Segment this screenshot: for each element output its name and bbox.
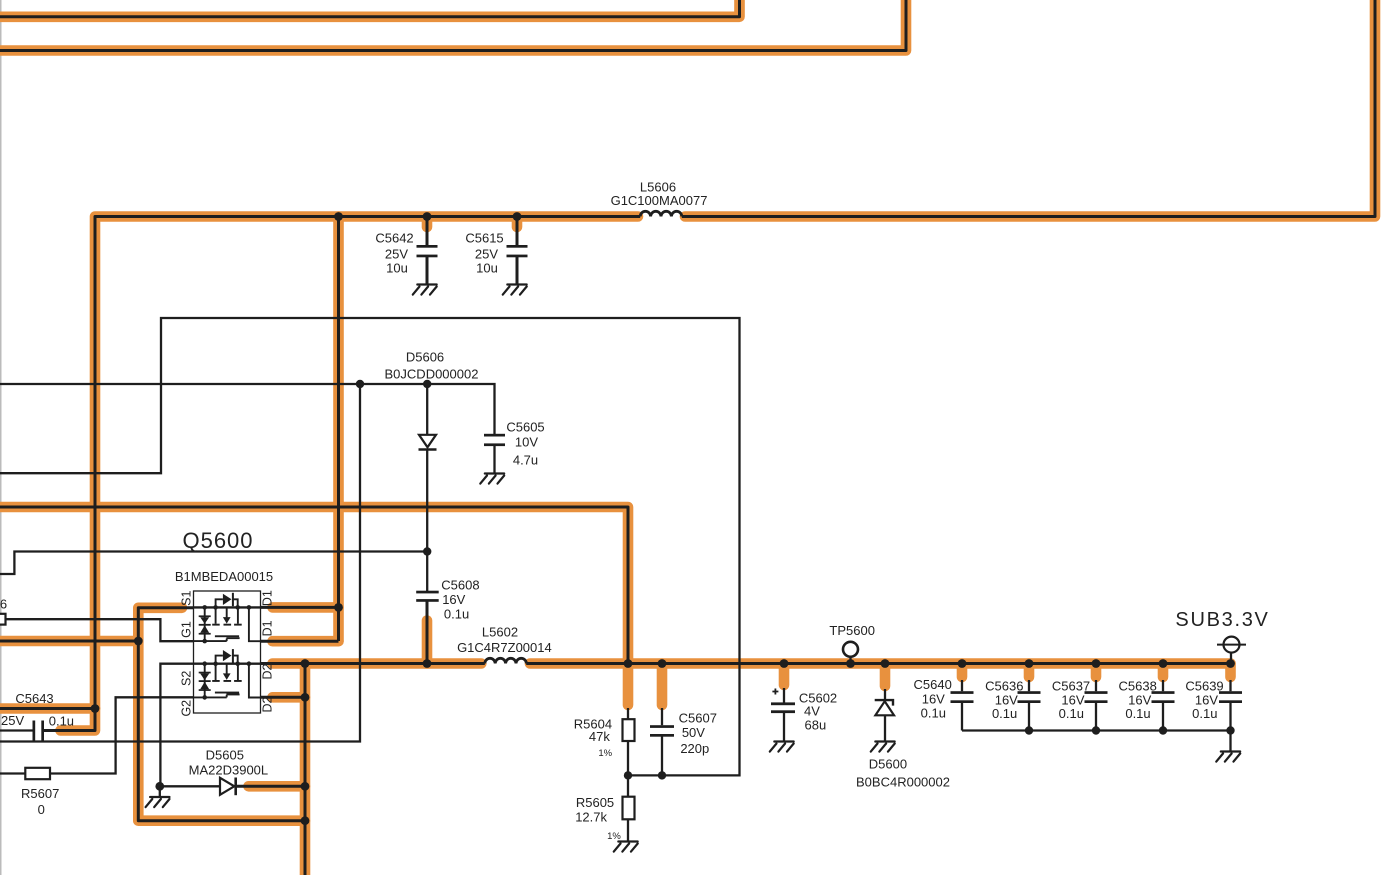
svg-text:D1: D1 [261,620,275,636]
svg-text:S1: S1 [179,591,193,606]
svg-text:10u: 10u [386,260,408,275]
wire D5605 cathode stub highlight [249,781,306,792]
capacitor C5636 [1018,691,1041,703]
resistor R5607 [25,768,50,779]
svg-text:16V: 16V [442,592,465,607]
svg-text:TP5600: TP5600 [829,623,875,638]
resistor R5604 [623,719,635,741]
node rail C5638 [1159,659,1168,668]
resistor stub left edge (cut component) [0,614,6,625]
svg-text:68u: 68u [805,718,827,733]
wire top-B [0,0,906,51]
node y384 x360 [356,380,364,388]
wire y384 net [0,384,495,435]
node rail C5637 [1092,659,1101,668]
capacitor C5615 [507,245,528,257]
wire C5636 stub highlight [1024,664,1035,678]
svg-text:25V: 25V [385,246,408,261]
wire R5607 left lead [0,772,25,774]
node fb R5604 R5605 [624,771,632,779]
wire D2 bottom stub highlight [273,692,306,703]
ground below C5642 [413,285,437,295]
svg-text:C5607: C5607 [679,710,717,725]
wire right-vertical to main horizontal highlight [685,0,1375,217]
wire y507 highlight [0,507,628,664]
svg-text:R5605: R5605 [576,795,614,810]
wire D5600 leads [884,689,886,742]
node C5615 tap [513,212,522,221]
wire D5606 top lead [426,384,428,434]
svg-text:0.1u: 0.1u [444,607,469,622]
svg-text:D2: D2 [261,696,275,712]
svg-text:4V: 4V [804,704,820,719]
THIN_NET_LAYER [0,318,1231,842]
svg-text:SUB3.3V: SUB3.3V [1175,609,1269,631]
wire main rail right of L5602 highlight [530,658,1231,669]
wire C5608 stub highlight [422,621,433,664]
wire G1 route [5,619,194,641]
svg-text:C5642: C5642 [375,230,413,245]
wire C5638 leads [1162,680,1164,731]
wire main rail left of L5602 [261,662,485,665]
svg-text:25V: 25V [1,713,24,728]
node rail C5636 [1025,659,1034,668]
wire C5640 leads [961,680,963,731]
wire left y641 highlight [0,636,138,647]
wire D5606 bottom lead to C5608 [426,450,428,592]
node D2 bottom pin [301,693,310,702]
svg-text:B0JCDD000002: B0JCDD000002 [385,366,479,381]
wire C5608 bottom lead [426,601,429,664]
wire C5637 stub highlight [1091,664,1102,678]
svg-text:C5615: C5615 [465,230,503,245]
svg-text:1%: 1% [607,831,621,842]
node cap rail C5636 [1025,726,1033,734]
wire D1 bottom stub highlight [273,636,339,647]
node rail C5602 [780,659,789,668]
svg-text:10u: 10u [476,260,498,275]
node C5643 corner [91,704,100,713]
wire D2 bottom stub [261,696,306,699]
node D5606 anode [423,380,431,388]
node x305 y821 [301,816,310,825]
wire vertical x338 [337,217,340,642]
wire D2 vertical [304,664,307,875]
wire S1 route [138,608,305,821]
svg-text:0: 0 [38,802,45,817]
wire C5643 right lead [43,709,96,731]
svg-text:220p: 220p [680,741,709,756]
wire D5605 cathode [236,785,305,788]
ground below D5600 [871,742,895,752]
wire C5605 bottom lead [493,446,495,474]
capacitor C5643 [33,721,45,741]
svg-text:Q5600: Q5600 [182,528,253,553]
wire left y708 [0,707,95,710]
node rail D5600 [881,659,890,668]
svg-text:0.1u: 0.1u [49,714,74,729]
wire D1 bottom stub [261,640,339,643]
capacitor C5638 [1152,691,1175,703]
ground below C5615 [503,285,527,295]
test point TP5600 [843,642,858,657]
svg-text:D2: D2 [261,663,275,679]
wire C5615 leads [516,217,519,285]
svg-text:0.1u: 0.1u [1059,706,1084,721]
svg-text:1%: 1% [598,748,612,759]
svg-text:16V: 16V [922,691,945,706]
wire C5638 stub highlight [1158,664,1169,678]
svg-text:D5605: D5605 [206,747,244,762]
svg-text:G1: G1 [179,621,193,638]
wire bottom cap rail [962,729,1231,731]
node cap rail C5637 [1092,726,1100,734]
node D5605 cathode [301,782,310,791]
left scan border [0,0,2,875]
diode D5605 [220,778,236,796]
svg-text:10V: 10V [515,434,538,449]
svg-text:L5602: L5602 [482,624,518,639]
wire top-A highlight [0,0,740,17]
wire TP5600 stub [849,657,851,664]
wire D5600 stub highlight [880,664,891,687]
svg-text:6: 6 [0,597,7,612]
wire R5604 stub highlight [623,664,634,706]
ground below C5602 [770,742,794,752]
wire C5607 leads [661,708,663,775]
wire feedback box [0,318,740,775]
wire D2 vertical highlight [300,664,311,875]
svg-text:47k: 47k [589,729,610,744]
wire C5640 stub highlight [957,664,968,678]
wire S2 route [160,664,193,787]
svg-text:0.1u: 0.1u [992,706,1017,721]
ground below C5639 [1216,752,1240,762]
wire R5604 to R5605 [627,708,629,842]
ground below C5605 [480,474,504,484]
inductor L5606 [640,211,682,216]
terminal SUB3.3V [1217,637,1246,653]
wire D5605 anode lead [160,786,220,797]
ground below D5605 [146,797,170,807]
svg-text:B1MBEDA00015: B1MBEDA00015 [175,569,273,584]
wire C5615 stub highlight [512,217,523,227]
zener D5600 [875,700,895,715]
svg-text:0.1u: 0.1u [1192,706,1217,721]
wire SUB3.3V stub [1230,653,1232,664]
node D1 pin [334,603,343,612]
capacitor C5607 [650,725,674,737]
svg-text:12.7k: 12.7k [575,810,607,825]
capacitor C5642 [417,245,438,257]
wire C5639 stub highlight [1225,664,1236,678]
wire S1 stub highlight [138,608,305,821]
node rail D2 [301,659,310,668]
capacitor C5608 [416,591,439,602]
wire C5602 stub highlight [779,664,790,686]
wire y507 [0,507,628,664]
wire G2 route [50,697,193,773]
node rail TP5600 [846,659,855,668]
svg-text:D1: D1 [261,590,275,606]
wire main horizontal left of L5606 [95,217,640,709]
svg-text:D5600: D5600 [869,756,907,771]
wire C5602 leads [783,688,785,742]
wire C5607 stub highlight [657,664,668,706]
wire left y708 highlight [0,703,95,714]
svg-text:B0BC4R000002: B0BC4R000002 [856,774,950,789]
svg-text:C5608: C5608 [441,577,479,592]
Q5600 package box [194,591,261,713]
node rail C5608 [423,659,432,668]
wire left y641 [0,640,138,643]
node main-horizontal x338 [334,212,343,221]
capacitor C5639 [1219,691,1242,703]
wire x360 vertical to y741 [0,384,360,742]
inductor L5602 [485,658,527,663]
node rail R5604 [624,659,633,668]
diode D5606 [419,435,437,450]
wire C5643 lead highlight [61,709,96,731]
TEXT_LAYER [0,180,1270,843]
svg-text:G2: G2 [179,700,193,717]
node rail C5607 [658,659,667,668]
wire top-A [0,0,740,17]
svg-text:25V: 25V [475,246,498,261]
svg-text:D5606: D5606 [406,350,444,365]
svg-text:S2: S2 [179,671,193,686]
node y551 x427 [423,547,431,555]
node rail C5639 [1226,659,1235,668]
capacitor C5640 [951,691,974,703]
ground below R5605 [614,842,638,852]
capacitor C5605 [484,434,505,446]
svg-text:G1C100MA0077: G1C100MA0077 [611,193,708,208]
capacitor C5637 [1085,691,1108,703]
wire vertical x338 D1 highlight [333,217,344,642]
svg-text:G1C4R7Z00014: G1C4R7Z00014 [457,640,552,655]
wire C5642 stub highlight [422,217,433,227]
wire right-vertical + main horizontal [682,0,1375,217]
svg-text:50V: 50V [682,725,705,740]
wire y551 net [0,552,427,575]
node cap rail C5638 [1159,726,1167,734]
wire C5643 leads [0,729,60,731]
plus sign C5602 [772,689,778,695]
wire C5637 leads [1095,680,1097,731]
wire C5642 leads [426,217,429,285]
node rail C5640 [958,659,967,668]
resistor R5605 [623,797,635,820]
COMPONENT_LAYER [0,211,1246,851]
node fb C5607 [658,771,666,779]
wire main rail left of L5602 highlight [273,658,482,669]
Q5600 mosfet cell 1 [194,593,261,644]
wire main rail right of L5602 [526,662,1230,665]
wire C5636 leads [1028,680,1030,731]
node cap rail C5639 [1226,726,1234,734]
wire D1 top stub [261,606,339,609]
svg-text:C5605: C5605 [506,419,544,434]
svg-text:0.1u: 0.1u [921,705,946,720]
svg-text:MA22D3900L: MA22D3900L [189,763,269,778]
capacitor C5602 electrolytic [771,702,795,713]
wire main horizontal left of L5606 highlight [95,217,638,709]
svg-text:R5607: R5607 [21,786,59,801]
wire top-B highlight [0,0,906,51]
node C5642 tap [423,212,432,221]
node S1 net [134,637,143,646]
Q5600 mosfet cell 2 [194,649,261,700]
svg-text:4.7u: 4.7u [513,452,538,467]
wire D1 top stub highlight [273,602,339,613]
svg-text:0.1u: 0.1u [1125,706,1150,721]
wire C5639 leads [1229,680,1231,752]
node D5605 anode [155,782,164,791]
svg-text:C5643: C5643 [15,691,53,706]
svg-text:C5640: C5640 [914,677,952,692]
